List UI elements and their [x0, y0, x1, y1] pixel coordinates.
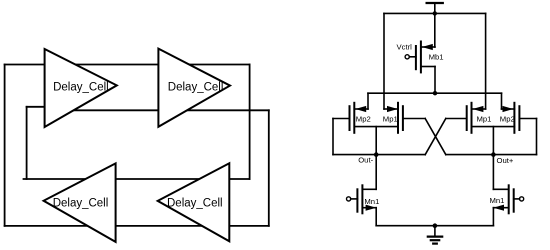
wire top rail	[384, 12, 486, 14]
arrow Mp2 left source (points left)	[355, 106, 366, 112]
wire Mp2 right gate to outer	[519, 118, 536, 120]
ground	[428, 226, 442, 244]
wire X cross-couple diagonal 2	[425, 119, 446, 155]
arrow Mp2 right source (points right)	[503, 106, 514, 112]
wire Out- rail	[333, 154, 425, 156]
svg-text:Delay_Cell: Delay_Cell	[53, 197, 109, 209]
svg-text:Delay_Cell: Delay_Cell	[167, 197, 223, 209]
arrow Mp1 right source (points left)	[473, 106, 484, 112]
wire V2 (left inner vertical)	[26, 107, 28, 179]
svg-text:Mp1: Mp1	[383, 114, 398, 123]
wire Out+ down to Mn1 right drain	[492, 155, 494, 190]
wire right drain rail	[472, 126, 515, 128]
arrow Mn1 left source (points right)	[366, 205, 377, 211]
arrow Mp1 left source (points right)	[387, 106, 398, 112]
transistor Mn1 right (NMOS)	[493, 185, 523, 213]
svg-text:Mp1: Mp1	[477, 114, 492, 123]
wire V1 (left outer vertical)	[4, 65, 6, 226]
svg-text:Delay_Cell: Delay_Cell	[53, 82, 109, 94]
arrow Mn1 right source (points left)	[493, 205, 504, 211]
svg-text:Vctrl: Vctrl	[397, 42, 413, 51]
transistor Mn1 left (NMOS)	[347, 185, 377, 213]
wire rail B (upper inner feedback)	[50, 109, 269, 111]
wire Mp2 left gate to outer	[333, 118, 350, 120]
wire rail B left stub	[27, 106, 46, 108]
wire box left vertical (Mp1 left source)	[383, 13, 385, 109]
wire Mn1 left source to ground rail	[375, 208, 377, 226]
delay cell U1 (top-left buffer)	[45, 49, 117, 127]
power VDD bar	[427, 2, 443, 4]
transistor Mb1 (PMOS bias)	[405, 42, 435, 73]
transistor Mp1 left	[384, 103, 403, 133]
wire left outer vertical to Out-	[332, 119, 334, 155]
wire right drain drop to Out+	[492, 127, 494, 155]
transistor Mp1 right	[467, 103, 486, 133]
wire rail A (top outer feedback)	[5, 64, 250, 66]
svg-text:Mn1: Mn1	[364, 197, 379, 206]
transistor Mp2 left	[350, 103, 369, 133]
wire rail D (bottom outer feedback)	[5, 225, 269, 227]
wire left drain rail	[354, 126, 398, 128]
wire Mp2 right source drop	[501, 93, 503, 109]
wire V4 (right outer vertical)	[268, 110, 270, 226]
wire Mp2 left source drop	[367, 93, 369, 109]
wire Mb1 source down to bias rail	[434, 67, 436, 94]
wire VDD stem to Mb1 drain	[434, 3, 436, 47]
wire source bias rail	[368, 92, 502, 94]
wire Mn1 right source to ground rail	[492, 208, 494, 226]
node Out+ junction	[491, 152, 496, 157]
wire box right vertical (Mp1 right source)	[485, 13, 487, 109]
delay cell U3 (bottom-right buffer)	[158, 163, 230, 241]
svg-text:Mp2: Mp2	[356, 114, 371, 123]
delay cell U2 (top-right buffer)	[158, 49, 230, 127]
svg-text:Mn1: Mn1	[490, 196, 505, 205]
delay cell U4 (bottom-left buffer)	[44, 163, 116, 242]
wire Mp1 right gate to X	[446, 118, 467, 120]
wire X cross-couple diagonal 1	[425, 119, 446, 155]
wire ground rail	[376, 225, 493, 227]
svg-text:Mb1: Mb1	[429, 53, 444, 62]
transistor Mp2 right	[502, 103, 520, 133]
svg-text:Delay_Cell: Delay_Cell	[168, 82, 224, 94]
svg-text:Out+: Out+	[497, 156, 514, 165]
wire V3 (right inner vertical)	[249, 65, 251, 180]
wire Mp1 left gate to X	[403, 118, 425, 120]
junction node at VDD stem	[433, 11, 437, 15]
arrow Mb1 source (points left)	[422, 44, 433, 50]
wire right outer vertical to Out+	[536, 119, 538, 155]
wire Out+ rail	[446, 154, 537, 156]
wire left drain drop to Out-	[375, 127, 377, 155]
junction node at ground	[433, 223, 438, 228]
svg-text:Mp2: Mp2	[500, 114, 515, 123]
wire rail C (lower inner feedback)	[24, 178, 250, 180]
node Out- junction	[374, 152, 379, 157]
svg-text:Out-: Out-	[358, 156, 373, 165]
wire Out- down to Mn1 left drain	[375, 155, 377, 190]
junction node at Mb1 source / bias rail	[433, 91, 437, 95]
